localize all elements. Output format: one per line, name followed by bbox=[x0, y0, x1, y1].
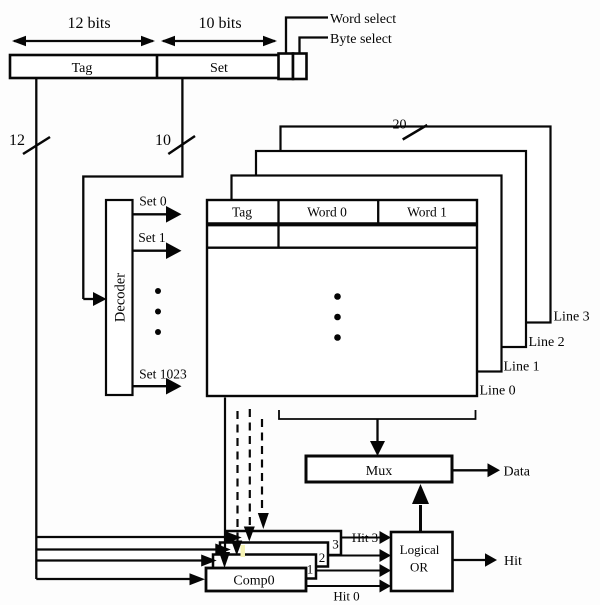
hit2 wire bbox=[328, 555, 380, 557]
svg-text:1: 1 bbox=[307, 562, 314, 577]
svg-text:Hit 3: Hit 3 bbox=[352, 530, 378, 545]
set wire bbox=[83, 78, 182, 299]
set 1 arrow bbox=[133, 250, 168, 252]
word select cell bbox=[279, 54, 294, 80]
hit0 wire bbox=[306, 585, 380, 587]
line 2 box bbox=[256, 151, 526, 347]
svg-text:Word 0: Word 0 bbox=[307, 205, 347, 220]
svg-text:Byte select: Byte select bbox=[330, 32, 392, 47]
tag bus wire bbox=[35, 78, 37, 579]
12 bits arrow bbox=[14, 40, 153, 42]
cache row2 line bbox=[207, 247, 477, 249]
line 3 box bbox=[281, 127, 551, 323]
svg-text:Decoder: Decoder bbox=[113, 273, 129, 322]
data arrow bbox=[452, 469, 488, 471]
tag compare wire C bbox=[36, 559, 201, 561]
svg-text:Set 1023: Set 1023 bbox=[139, 367, 187, 382]
bracket to mux arrow bbox=[376, 419, 378, 442]
svg-text:Comp0: Comp0 bbox=[233, 574, 274, 589]
set 1023 arrow bbox=[133, 385, 168, 387]
svg-text:12: 12 bbox=[9, 132, 25, 149]
solid compare wire bbox=[224, 398, 226, 554]
20 slash bbox=[403, 125, 428, 140]
svg-text:Tag: Tag bbox=[72, 61, 93, 76]
svg-text:Line 0: Line 0 bbox=[480, 384, 516, 399]
tag compare wire D bbox=[36, 578, 189, 580]
svg-text:10 bits: 10 bits bbox=[198, 15, 241, 32]
tag compare wire A bbox=[36, 536, 226, 538]
svg-text:Set: Set bbox=[210, 61, 228, 76]
tag bus slash bbox=[23, 137, 50, 154]
output bracket bbox=[279, 410, 476, 419]
word column divider bbox=[377, 200, 379, 224]
svg-text:Word select: Word select bbox=[330, 12, 396, 27]
svg-text:Set 0: Set 0 bbox=[139, 194, 167, 209]
set slash bbox=[168, 136, 195, 154]
line 0 box bbox=[207, 200, 477, 396]
tag column divider bbox=[277, 200, 279, 248]
dashed compare wire 2 bbox=[249, 409, 251, 527]
svg-text:20: 20 bbox=[393, 118, 407, 133]
hit3 wire bbox=[341, 537, 380, 539]
svg-text:Line 1: Line 1 bbox=[504, 360, 540, 375]
svg-text:Mux: Mux bbox=[366, 464, 392, 479]
svg-text:12 bits: 12 bits bbox=[67, 15, 110, 32]
svg-text:Logical: Logical bbox=[400, 542, 440, 557]
cache dots bbox=[334, 293, 341, 300]
mux M1 bbox=[306, 456, 452, 482]
word select wire bbox=[286, 18, 328, 54]
line 1 box bbox=[232, 176, 502, 372]
or to mux select wire bbox=[419, 505, 422, 532]
logical OR U2 bbox=[391, 532, 453, 591]
scan artifact speck bbox=[241, 545, 246, 557]
tag compare wire B bbox=[36, 548, 215, 550]
comparator Comp0 bbox=[206, 568, 306, 591]
svg-text:Hit: Hit bbox=[504, 554, 522, 569]
comparator Comp1 bbox=[213, 555, 316, 579]
hit arrow bbox=[453, 559, 486, 561]
cache header thick line bbox=[207, 222, 477, 226]
svg-text:Line 2: Line 2 bbox=[529, 335, 565, 350]
set 0 arrow bbox=[133, 213, 168, 215]
dashed compare wire 3 bbox=[261, 419, 263, 513]
decoder dots bbox=[155, 288, 161, 294]
svg-text:Word 1: Word 1 bbox=[407, 205, 447, 220]
comparator Comp3 bbox=[227, 531, 341, 555]
svg-text:2: 2 bbox=[319, 550, 326, 565]
10 bits arrow bbox=[163, 40, 275, 42]
svg-text:Tag: Tag bbox=[232, 205, 252, 220]
comparator Comp2 bbox=[220, 543, 328, 567]
svg-text:Line 3: Line 3 bbox=[554, 310, 590, 325]
svg-text:OR: OR bbox=[410, 560, 428, 575]
svg-text:10: 10 bbox=[155, 132, 171, 149]
decoder U1 bbox=[106, 200, 133, 395]
svg-text:Data: Data bbox=[504, 465, 531, 480]
byte select cell bbox=[293, 54, 307, 80]
svg-text:3: 3 bbox=[332, 537, 339, 552]
byte select wire bbox=[300, 38, 329, 54]
dashed compare wire 1 bbox=[236, 411, 238, 541]
address register box bbox=[10, 55, 306, 78]
svg-text:Set 1: Set 1 bbox=[138, 230, 165, 245]
svg-text:Hit 0: Hit 0 bbox=[333, 589, 359, 604]
arrow into decoder bbox=[83, 298, 93, 300]
hit1 wire bbox=[316, 570, 380, 572]
tag/set divider bbox=[156, 55, 159, 78]
